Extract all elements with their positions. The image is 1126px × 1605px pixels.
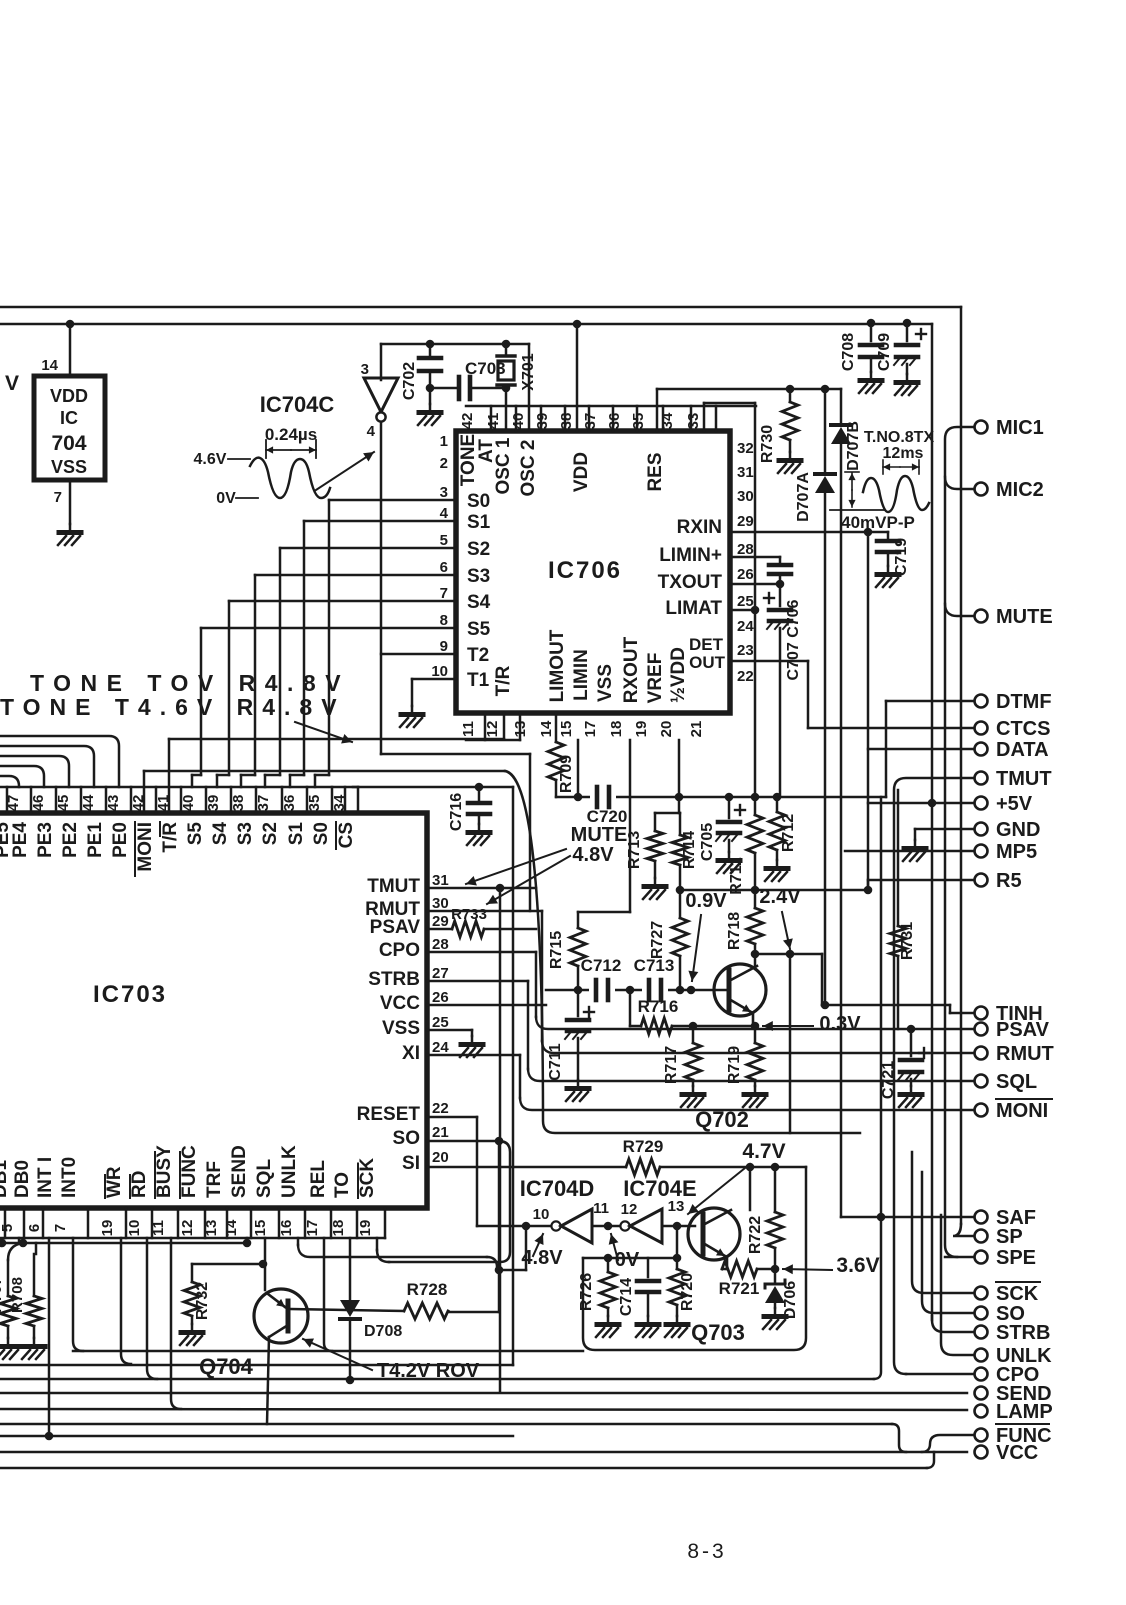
wire bus line D SEND [0, 1392, 967, 1395]
label IC704E [623, 1176, 696, 1201]
svg-text:31: 31 [737, 464, 754, 481]
wire RMUT row [542, 1041, 974, 1053]
wire PSAV row [536, 1017, 974, 1029]
wire collector spur [755, 954, 822, 1005]
svg-text:CTCS: CTCS [996, 718, 1050, 740]
wire bus line B [0, 1364, 513, 1367]
svg-text:4.8V: 4.8V [572, 844, 614, 866]
wire SI row to R729 [427, 1166, 626, 1169]
resistor R709 [548, 713, 575, 797]
wire STRB pin row [427, 981, 528, 1069]
wire bias row [680, 889, 868, 892]
svg-text:33: 33 [685, 413, 702, 430]
node D708 bus junction [346, 1376, 355, 1385]
svg-text:R729: R729 [623, 1137, 664, 1156]
terminal DATA [975, 739, 1049, 761]
wire SQL row [528, 1069, 974, 1081]
resistor R720 [669, 1258, 696, 1316]
svg-text:28: 28 [432, 936, 449, 953]
resistor R719 [726, 1026, 763, 1086]
IC706 top pin numbers [459, 406, 756, 431]
svg-text:25: 25 [432, 1014, 449, 1031]
svg-text:R722: R722 [747, 1216, 764, 1254]
wire TMUT drop [499, 888, 502, 1392]
wire inverter input rail [381, 344, 529, 380]
svg-text:4: 4 [440, 505, 449, 522]
IC706 pin labels [458, 434, 726, 704]
wire MIC1 line [945, 427, 974, 1257]
arrow 0V to junction [609, 1234, 619, 1260]
svg-text:R709: R709 [558, 755, 575, 793]
microcontroller IC703 body [0, 813, 427, 1208]
IC706 left pin numbers [431, 433, 448, 680]
svg-text:35: 35 [630, 413, 647, 430]
ground R708 [22, 1338, 45, 1359]
svg-text:TONE TOV R4.8V: TONE TOV R4.8V [30, 670, 350, 696]
svg-text:R717: R717 [663, 1046, 680, 1084]
wire top outer rail [0, 307, 961, 1224]
terminal +5V [975, 793, 1033, 815]
wire TINH row [822, 1005, 974, 1013]
ground R732 [180, 1324, 203, 1345]
op-amp IC704D [551, 1209, 592, 1243]
ground C705 [717, 852, 740, 873]
svg-text:PE0: PE0 [110, 822, 131, 858]
transistor Q703 [688, 1167, 750, 1269]
node TXOUT junction [776, 580, 785, 589]
wire bus line A [73, 1350, 583, 1353]
resistor R717 [663, 1026, 701, 1086]
svg-text:T2: T2 [467, 645, 489, 666]
label Q703 [691, 1320, 745, 1345]
svg-text:40: 40 [180, 795, 197, 812]
svg-text:C707 C706: C707 C706 [785, 599, 802, 680]
svg-text:XI: XI [402, 1043, 420, 1064]
svg-text:VDD: VDD [571, 452, 592, 492]
svg-text:9: 9 [440, 638, 448, 655]
wire SO line [922, 1172, 974, 1313]
terminal LAMP [975, 1401, 1053, 1423]
svg-text:IC704D: IC704D [520, 1176, 595, 1201]
svg-text:R727: R727 [649, 921, 666, 959]
svg-text:LIMAT: LIMAT [665, 598, 722, 619]
label T.NO.8TX [864, 429, 935, 446]
svg-text:25: 25 [737, 593, 754, 610]
wire pin33 to LIMAT rail [704, 403, 755, 797]
svg-text:MP5: MP5 [996, 841, 1037, 863]
svg-text:IC704C: IC704C [260, 392, 335, 417]
svg-text:VSS: VSS [595, 664, 616, 702]
node pin14 row [243, 1239, 252, 1248]
svg-text:LAMP: LAMP [996, 1401, 1053, 1423]
label pin12 [621, 1201, 638, 1218]
terminal MP5 [975, 841, 1038, 863]
IC706 bottom pin numbers [460, 713, 705, 740]
wire bus line G [0, 1435, 513, 1438]
wire MONI line and Q702 frame [144, 771, 860, 1133]
node collector drop [786, 950, 795, 959]
svg-text:RES: RES [645, 452, 666, 491]
svg-text:17: 17 [582, 721, 599, 738]
node X701 bottom [502, 384, 511, 393]
label TONE TOV R4.8V [30, 670, 350, 696]
IC703 top pin numbers [0, 787, 358, 813]
terminal TMUT [975, 768, 1052, 790]
svg-text:31: 31 [432, 872, 449, 889]
ground C709 [895, 374, 918, 395]
wire emitter lead [722, 1268, 727, 1271]
label Q702 [695, 1107, 749, 1132]
svg-text:C705: C705 [699, 823, 716, 861]
ground C702 [418, 388, 441, 425]
wire SAF line [841, 1216, 974, 1219]
capacitor C707 electrolytic [764, 574, 802, 797]
node SAF 881 [877, 1213, 886, 1222]
terminal UNLK [975, 1345, 1053, 1367]
dim arrows 0.24us [266, 440, 316, 458]
ground C721 [899, 1086, 922, 1107]
node IC704 supply tap [66, 320, 75, 329]
terminal R5 [975, 870, 1022, 892]
node Q702 base [687, 986, 696, 995]
svg-text:23: 23 [737, 642, 754, 659]
svg-text:8: 8 [440, 612, 448, 629]
wire 0V row [583, 1257, 677, 1260]
svg-text:3: 3 [440, 484, 448, 501]
svg-text:R720: R720 [679, 1273, 696, 1311]
svg-text:MUTE: MUTE [996, 606, 1053, 628]
wire FUNC spur [922, 1435, 974, 1452]
node R714 bottom [676, 886, 685, 895]
diode D708 on pin18 line [340, 1238, 402, 1380]
svg-text:MUTE: MUTE [571, 824, 628, 846]
transistor Q702 [714, 954, 766, 1026]
svg-text:C711: C711 [547, 1043, 564, 1080]
svg-text:12ms: 12ms [883, 445, 924, 462]
label MUTE 4.8V [571, 824, 628, 866]
svg-text:S1: S1 [286, 822, 307, 846]
svg-text:45: 45 [55, 795, 72, 812]
arrow 3.6V to node [783, 1264, 832, 1274]
svg-text:7: 7 [52, 1224, 69, 1232]
wire osc line pin40 [528, 344, 531, 431]
svg-text:IC704E: IC704E [623, 1176, 696, 1201]
ground R713 [643, 878, 666, 899]
svg-text:28: 28 [737, 541, 754, 558]
svg-text:R730: R730 [759, 425, 776, 463]
ground R717 [681, 1086, 704, 1107]
svg-text:MONI: MONI [135, 822, 156, 872]
wire VDD pin38 [576, 324, 579, 431]
node RXIN 40mV junction [864, 528, 873, 537]
wire DB row [2, 1238, 247, 1243]
resistor R733 [451, 906, 536, 937]
svg-text:S0: S0 [467, 491, 490, 512]
resistor R707 [0, 1243, 23, 1338]
svg-text:42: 42 [459, 413, 476, 430]
svg-text:VSS: VSS [51, 457, 87, 477]
node C702 bottom [426, 384, 435, 393]
svg-text:C719: C719 [893, 538, 910, 576]
svg-text:11: 11 [593, 1200, 609, 1217]
svg-text:10: 10 [126, 1220, 143, 1237]
svg-text:43: 43 [105, 795, 122, 812]
wire GND spur [915, 829, 974, 840]
node DB0 [19, 1239, 28, 1248]
svg-text:½VDD: ½VDD [668, 647, 689, 703]
resistor R730 [759, 389, 798, 463]
node Q702 emitter [751, 1022, 760, 1031]
wire XI row [427, 1055, 520, 1098]
svg-text:OUT: OUT [689, 653, 726, 672]
svg-text:VSS: VSS [382, 1018, 420, 1039]
capacitor C713 [634, 956, 675, 1001]
svg-text:CPO: CPO [379, 940, 420, 961]
wire MONI row [520, 1098, 974, 1110]
svg-text:D707A: D707A [795, 472, 812, 522]
terminal FUNC [975, 1424, 1052, 1447]
terminal RMUT [975, 1043, 1054, 1065]
resistor R713 [626, 813, 663, 878]
node D707A top [821, 385, 830, 394]
wire R713 R714 top row [655, 797, 680, 813]
svg-text:C712: C712 [581, 956, 622, 975]
node R722 top [771, 1163, 780, 1172]
svg-text:INT I: INT I [35, 1157, 56, 1198]
node SO junction [495, 1137, 504, 1146]
capacitor C709 electrolytic [876, 324, 926, 374]
resistor R726 [578, 1258, 616, 1316]
arrow 4.8V to input [533, 1234, 544, 1256]
terminal TINH [975, 1003, 1043, 1025]
resistor R728 [404, 1280, 448, 1319]
svg-text:24: 24 [737, 618, 754, 635]
svg-text:19: 19 [633, 721, 650, 738]
node R712 top [773, 793, 782, 802]
svg-text:TMUT: TMUT [996, 768, 1052, 790]
wire CPO pin row [427, 952, 536, 1017]
svg-text:T/R: T/R [493, 665, 514, 696]
ground D706 [763, 1308, 786, 1329]
wire pin18 to R715 [578, 740, 630, 912]
svg-text:OSC 1: OSC 1 [493, 437, 514, 494]
capacitor C714 [618, 1258, 659, 1316]
wire PE hooks to left edge [0, 736, 119, 787]
svg-text:TRF: TRF [204, 1161, 225, 1198]
node bias row right [864, 886, 873, 895]
capacitor C719 [877, 532, 910, 576]
wire RESET row to inverter input [427, 1117, 551, 1226]
label 4.8V [521, 1247, 563, 1269]
svg-text:R707: R707 [0, 1277, 5, 1313]
resistor R711 [728, 797, 763, 895]
resistor R718 [726, 890, 763, 954]
svg-text:DATA: DATA [996, 739, 1049, 761]
svg-text:S2: S2 [260, 822, 281, 845]
node Q703 base node [673, 1222, 682, 1231]
svg-text:0V: 0V [216, 490, 236, 507]
node LIMAT pin25 [730, 606, 759, 615]
arrow 4.7V to pin13 [688, 1164, 750, 1214]
svg-text:RXIN: RXIN [677, 517, 722, 538]
label pin11 [593, 1200, 609, 1217]
wire UNLK line [941, 1215, 974, 1355]
svg-text:CS: CS [336, 822, 357, 848]
svg-text:30: 30 [432, 895, 449, 912]
svg-text:VDD: VDD [50, 386, 88, 406]
svg-text:TONE T4.6V R4.8V: TONE T4.6V R4.8V [0, 694, 346, 720]
svg-text:20: 20 [658, 721, 675, 738]
svg-text:10: 10 [533, 1206, 550, 1223]
wire RXIN pin29 [730, 531, 868, 534]
label IC704D [520, 1176, 595, 1201]
wire TMUT row [427, 887, 536, 890]
wire signal row [546, 989, 728, 992]
svg-text:C716: C716 [448, 793, 465, 831]
diode D707A [795, 389, 835, 1005]
svg-text:0.3V: 0.3V [819, 1013, 861, 1035]
terminal SO [975, 1303, 1025, 1325]
wire RMUT drop [541, 911, 544, 1041]
ground R720 [665, 1316, 688, 1337]
svg-text:DTMF: DTMF [996, 691, 1052, 713]
svg-text:R708: R708 [9, 1277, 26, 1313]
resistor R727 [649, 890, 688, 990]
node pin11-12 junction [604, 1222, 613, 1231]
svg-text:37: 37 [582, 413, 599, 430]
svg-text:12: 12 [179, 1220, 196, 1237]
svg-text:BUSY: BUSY [154, 1145, 175, 1198]
node base-R720 junction [673, 1254, 682, 1263]
svg-text:D708: D708 [364, 1323, 402, 1340]
svg-text:38: 38 [558, 413, 575, 430]
svg-text:R733: R733 [451, 906, 487, 923]
svg-text:V: V [5, 372, 19, 395]
svg-text:40: 40 [510, 413, 527, 430]
label page number 8-3 [687, 1540, 726, 1563]
svg-text:2: 2 [440, 455, 448, 472]
wire R716 row [630, 990, 641, 1026]
svg-text:SQL: SQL [254, 1159, 275, 1198]
wire pin10 drop [147, 1238, 157, 1379]
svg-text:29: 29 [432, 913, 449, 930]
svg-text:39: 39 [205, 795, 222, 812]
svg-text:10: 10 [431, 663, 448, 680]
svg-text:WR: WR [104, 1166, 125, 1198]
svg-text:SP: SP [996, 1226, 1023, 1248]
svg-text:+5V: +5V [996, 793, 1033, 815]
capacitor C711 electrolytic [547, 990, 594, 1081]
arrow MUTE to TMUT pin [466, 849, 566, 886]
wire SO drop [498, 1141, 501, 1312]
enclosure Q703 [583, 1167, 806, 1350]
node R732 row junction [259, 1260, 268, 1269]
svg-text:30: 30 [737, 488, 754, 505]
ground R719 [743, 1086, 766, 1107]
wire SCK drop [377, 1238, 389, 1262]
waveform sine TX [863, 476, 929, 512]
capacitor C720 [587, 786, 628, 826]
wire IC704 pin14 [41, 324, 70, 376]
resistor R715 [548, 912, 586, 990]
svg-text:26: 26 [737, 566, 754, 583]
node R728 riser junction [495, 1266, 504, 1275]
svg-text:21: 21 [688, 721, 705, 738]
terminal SAF [975, 1207, 1037, 1229]
svg-text:1: 1 [440, 433, 448, 450]
wire pin6 drop to bus [48, 1238, 51, 1436]
node R711 top [751, 793, 760, 802]
wire base drop [676, 1226, 679, 1258]
label 0.24us [265, 425, 317, 444]
ground T1 [400, 706, 423, 727]
svg-text:41: 41 [485, 413, 502, 430]
node C705 top [725, 793, 734, 802]
transistor Q704 [254, 1289, 308, 1424]
wire 40mV to C719 [868, 531, 888, 534]
wire bus S0-S5 staircase [192, 500, 456, 787]
svg-text:GND: GND [996, 819, 1040, 841]
node R727 bottom [676, 986, 685, 995]
node R730 top [786, 385, 795, 394]
svg-text:13: 13 [512, 721, 529, 738]
svg-text:SO: SO [393, 1128, 420, 1149]
resistor R729 [623, 1137, 664, 1175]
svg-text:IC: IC [60, 408, 78, 428]
label 4.7V [742, 1140, 785, 1163]
node Q703 collector top [746, 1163, 755, 1172]
terminal MONI [975, 1099, 1053, 1122]
wire DET OUT pin23 [730, 661, 808, 728]
svg-text:14: 14 [41, 357, 58, 374]
svg-text:R715: R715 [548, 931, 565, 969]
resistor R731 [890, 790, 916, 1029]
svg-text:VREF: VREF [645, 653, 666, 704]
node pin6 bus junction [45, 1432, 54, 1441]
wire bus line I [0, 1452, 934, 1468]
node R711 bottom [751, 886, 760, 895]
IC703 top pin labels [0, 822, 357, 876]
terminal MIC2 [975, 479, 1044, 501]
label Q704 [199, 1354, 254, 1379]
capacitor C706 [769, 557, 791, 574]
svg-text:STRB: STRB [996, 1322, 1050, 1344]
ground R707 [0, 1338, 19, 1359]
svg-text:S5: S5 [185, 822, 206, 846]
svg-text:S5: S5 [467, 619, 491, 640]
svg-text:24: 24 [432, 1039, 449, 1056]
node C716 top [475, 783, 484, 792]
wire SP spur [953, 1224, 974, 1236]
wire R728 row from Q704 [291, 1309, 404, 1311]
wire DATA line [868, 532, 974, 890]
capacitor C702 [401, 344, 441, 400]
arrow 0.3V to emitter [763, 1021, 813, 1031]
node DB1 [0, 1239, 6, 1248]
label 40mVP-P [841, 513, 915, 532]
label 0V [615, 1249, 640, 1271]
svg-text:RMUT: RMUT [996, 1043, 1054, 1065]
wire TMUT line [894, 778, 974, 1374]
svg-text:S2: S2 [467, 539, 490, 560]
wire DTMF line [886, 701, 974, 797]
svg-text:6: 6 [26, 1224, 43, 1232]
svg-text:MIC1: MIC1 [996, 417, 1044, 439]
label 12ms [883, 445, 924, 462]
svg-text:C702: C702 [401, 362, 418, 400]
wire bus line F [0, 1424, 906, 1452]
svg-text:SQL: SQL [996, 1071, 1037, 1093]
